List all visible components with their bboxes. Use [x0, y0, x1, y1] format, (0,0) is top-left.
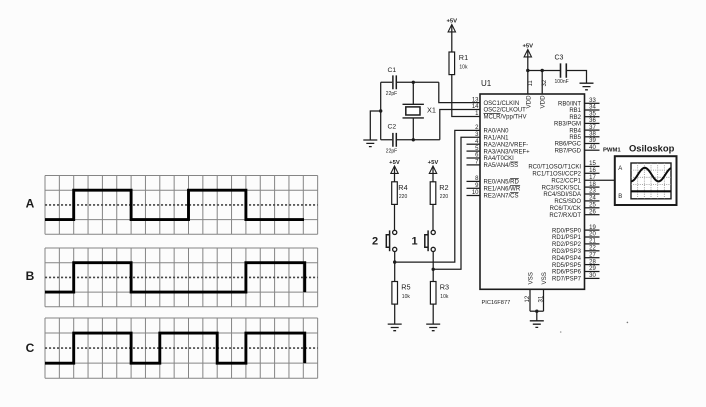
pin 12 VSS — [525, 272, 535, 311]
svg-text:PIC16F877: PIC16F877 — [482, 300, 511, 306]
svg-text:25: 25 — [589, 203, 596, 209]
svg-text:RB4: RB4 — [569, 128, 581, 134]
pin 6 RA4/T0CKI — [467, 153, 515, 163]
pin 36 RB3/PGM — [554, 118, 600, 128]
svg-text:2: 2 — [372, 236, 378, 248]
svg-text:RE0/AN5/RD: RE0/AN5/RD — [484, 180, 520, 186]
resistor R3 10k — [430, 282, 449, 305]
pin 33 RB0/INT — [558, 98, 600, 108]
wire R1 to MCLR pin 1 — [452, 75, 480, 117]
svg-text:1: 1 — [411, 236, 417, 248]
svg-text:12: 12 — [525, 295, 531, 302]
svg-text:38: 38 — [589, 132, 596, 138]
waveform grid B — [45, 248, 318, 307]
svg-text:23: 23 — [589, 189, 596, 195]
svg-text:18: 18 — [589, 182, 596, 188]
junction VSS — [535, 310, 538, 313]
svg-text:R3: R3 — [440, 283, 449, 292]
wire button 1 to node — [432, 251, 434, 269]
ground (R5) — [388, 324, 402, 331]
speck — [560, 331, 562, 333]
pin 34 RB1 — [569, 105, 599, 115]
pin 20 RD1/PSP1 — [552, 232, 600, 242]
svg-text:VDD: VDD — [525, 95, 532, 109]
svg-text:36: 36 — [589, 118, 596, 124]
pin 17 RC2/CCP1 — [551, 175, 596, 185]
wire to crystal ground — [370, 111, 380, 140]
svg-text:PWM1: PWM1 — [603, 148, 621, 154]
svg-text:29: 29 — [589, 266, 596, 272]
junction C1/X1 — [412, 81, 415, 84]
svg-text:VDD: VDD — [540, 95, 547, 109]
capacitor C2 22pF — [386, 124, 397, 155]
pin 28 RD5/PSP5 — [552, 259, 600, 269]
pin 24 RC5/SDO — [554, 196, 599, 206]
svg-text:27: 27 — [589, 252, 596, 258]
svg-text:RA0/AN0: RA0/AN0 — [484, 129, 510, 135]
svg-text:RC3/SCK/SCL: RC3/SCK/SCL — [542, 185, 582, 191]
pin 2 RA0/AN0 — [475, 125, 509, 135]
wire node to R3 — [432, 269, 434, 281]
capacitor C1 22pF — [386, 67, 397, 97]
svg-text:RA3/AN3/VREF+: RA3/AN3/VREF+ — [484, 149, 531, 155]
svg-text:RC4/SDI/SDA: RC4/SDI/SDA — [543, 192, 581, 198]
wire RC2/CCP1 to oscilloscope (net PWM1) — [585, 179, 615, 181]
svg-text:16: 16 — [589, 168, 596, 174]
svg-text:RD1/PSP1: RD1/PSP1 — [552, 235, 582, 241]
wire R5 to ground — [394, 304, 396, 324]
waveform grid A — [45, 176, 318, 235]
pin 13 OSC1/CLKIN — [472, 97, 519, 107]
junction pin11 — [526, 69, 529, 72]
svg-text:34: 34 — [589, 105, 596, 111]
svg-text:30: 30 — [589, 273, 596, 279]
svg-text:R5: R5 — [401, 283, 410, 292]
svg-text:24: 24 — [589, 196, 596, 202]
svg-text:RA2/AN2/VREF-: RA2/AN2/VREF- — [484, 142, 529, 148]
svg-text:22pF: 22pF — [386, 148, 397, 154]
resistor R1 10k — [449, 52, 468, 75]
button 2 — [372, 230, 397, 251]
pin 25 RC6/TX/CK — [550, 203, 600, 213]
svg-text:21: 21 — [589, 239, 596, 245]
pin 38 RB5 — [569, 132, 599, 142]
resistor R5 10k — [392, 282, 411, 305]
junction pin32 — [541, 69, 544, 72]
pin 29 RD6/PSP6 — [552, 266, 600, 276]
svg-text:OSC2/CLKOUT: OSC2/CLKOUT — [484, 108, 527, 114]
ground (R3) — [426, 324, 440, 331]
svg-text:C2: C2 — [388, 124, 397, 131]
pin 7 RA5/AN4/SS — [467, 160, 519, 170]
svg-text:RD7/PSP7: RD7/PSP7 — [552, 277, 582, 283]
pin 16 RC1/T1OSI/CCP2 — [532, 168, 599, 178]
svg-text:RB1: RB1 — [569, 108, 581, 114]
svg-text:11: 11 — [528, 80, 534, 87]
svg-text:40: 40 — [589, 145, 596, 151]
svg-text:RA4/T0CKI: RA4/T0CKI — [484, 156, 515, 162]
svg-text:RB5: RB5 — [569, 135, 581, 141]
pin 3 RA1/AN1 — [475, 132, 509, 142]
svg-text:26: 26 — [589, 209, 596, 215]
svg-text:35: 35 — [589, 111, 596, 117]
svg-text:RA5/AN4/SS: RA5/AN4/SS — [484, 163, 519, 169]
wire +5V to VDD rail — [527, 57, 529, 71]
pin 9 RE1/AN6/WR — [467, 183, 521, 193]
svg-text:220: 220 — [399, 194, 408, 200]
svg-text:RD2/PSP2: RD2/PSP2 — [552, 242, 582, 248]
power +5V (R2) — [428, 160, 439, 173]
pin 18 RC3/SCK/SCL — [542, 182, 600, 192]
svg-text:Osiloskop: Osiloskop — [629, 143, 675, 154]
waveform trace C — [45, 333, 305, 363]
wire +5V to R2 — [432, 173, 434, 181]
waveform grid C — [45, 318, 318, 378]
svg-text:OSC1/CLKIN: OSC1/CLKIN — [484, 101, 520, 107]
pin 1 MCLR/Vpp/THV — [475, 111, 526, 121]
pin 15 RC0/T1OSO/T1CKI — [528, 161, 599, 171]
svg-text:10k: 10k — [440, 294, 449, 300]
svg-text:10k: 10k — [402, 294, 411, 300]
svg-text:VSS: VSS — [528, 272, 535, 284]
ground (crystal) — [363, 140, 377, 147]
svg-text:C: C — [26, 341, 35, 355]
svg-text:RD4/PSP4: RD4/PSP4 — [552, 256, 582, 262]
svg-text:RB2: RB2 — [569, 115, 581, 121]
pin 40 RB7/PGD — [555, 145, 600, 155]
svg-text:37: 37 — [589, 125, 596, 131]
svg-text:B: B — [26, 269, 35, 283]
pin 19 RD0/PSP0 — [552, 225, 600, 235]
pin 4 RA2/AN2/VREF- — [467, 139, 529, 149]
svg-text:RD6/PSP6: RD6/PSP6 — [552, 270, 582, 276]
pin 30 RD7/PSP7 — [552, 273, 600, 283]
svg-text:RC1/T1OSI/CCP2: RC1/T1OSI/CCP2 — [532, 172, 581, 178]
junction C2/X1 — [412, 138, 415, 141]
junction gnd tap — [379, 109, 382, 112]
waveform trace A — [45, 190, 304, 219]
svg-text:R1: R1 — [459, 53, 468, 62]
wire button 2 to node — [394, 251, 396, 262]
wire C2 net (OSC2) — [381, 110, 480, 140]
svg-text:A: A — [618, 166, 622, 172]
svg-text:RE1/AN6/WR: RE1/AN6/WR — [484, 187, 521, 193]
svg-text:A: A — [26, 196, 35, 210]
button 1 — [411, 230, 435, 251]
power +5V (R4) — [389, 160, 400, 173]
wire node to RA1 (pin 3) — [433, 137, 480, 269]
wire R4 to button 2 — [394, 204, 396, 230]
pin 8 RE0/AN5/RD — [467, 176, 520, 186]
svg-text:RE2/AN7/CS: RE2/AN7/CS — [484, 194, 519, 200]
pin 31 VSS — [539, 272, 549, 311]
pin 11 VDD — [525, 71, 534, 109]
ground (C3) — [580, 83, 594, 90]
pin 37 RB4 — [569, 125, 599, 135]
pin 22 RD3/PSP3 — [552, 246, 600, 256]
svg-text:100nF: 100nF — [555, 79, 569, 85]
svg-text:MCLR/Vpp/THV: MCLR/Vpp/THV — [484, 115, 527, 121]
capacitor C3 100nF — [555, 55, 569, 85]
pin 27 RD4/PSP4 — [552, 252, 600, 262]
pin 35 RB2 — [569, 111, 599, 121]
svg-text:U1: U1 — [481, 79, 492, 88]
svg-text:31: 31 — [539, 295, 545, 302]
svg-text:RC7/RX/DT: RC7/RX/DT — [549, 213, 581, 219]
junction button 2 node — [393, 260, 396, 263]
pin 23 RC4/SDI/SDA — [543, 189, 599, 199]
crystal X1 — [403, 82, 436, 140]
svg-text:RC2/CCP1: RC2/CCP1 — [551, 178, 581, 184]
svg-text:19: 19 — [589, 225, 596, 231]
svg-text:VSS: VSS — [541, 272, 548, 284]
pin 5 RA3/AN3/VREF+ — [467, 146, 531, 156]
wire +5V to R1 — [451, 32, 453, 52]
svg-text:10k: 10k — [459, 64, 468, 70]
wire left vertical (C1-C2) — [380, 82, 382, 140]
resistor R4 220 — [392, 182, 408, 205]
wire VDD rail to C3 — [528, 71, 587, 83]
wire R3 to ground — [432, 304, 434, 324]
waveform trace B — [45, 263, 305, 292]
svg-text:20: 20 — [589, 232, 596, 238]
svg-text:RB6/PGC: RB6/PGC — [555, 142, 582, 148]
svg-text:RC5/SDO: RC5/SDO — [554, 199, 581, 205]
pin 21 RD2/PSP2 — [552, 239, 600, 249]
svg-text:22pF: 22pF — [386, 91, 397, 97]
svg-text:RB3/PGM: RB3/PGM — [554, 122, 581, 128]
ground below U1 — [530, 321, 544, 328]
svg-text:32: 32 — [542, 79, 548, 86]
svg-text:28: 28 — [589, 259, 596, 265]
svg-text:RC0/T1OSO/T1CKI: RC0/T1OSO/T1CKI — [528, 165, 581, 171]
svg-text:33: 33 — [589, 98, 596, 104]
svg-text:C3: C3 — [555, 55, 564, 62]
IC U1 PIC16F877 microcontroller — [480, 94, 585, 289]
svg-text:RD0/PSP0: RD0/PSP0 — [552, 228, 582, 234]
wire node to R5 — [394, 262, 396, 281]
svg-text:R4: R4 — [398, 183, 407, 192]
svg-text:RC6/TX/CK: RC6/TX/CK — [550, 206, 581, 212]
svg-text:220: 220 — [440, 194, 449, 200]
pin 10 RE2/AN7/CS — [467, 190, 519, 200]
wire +5V to R4 — [394, 173, 396, 181]
svg-text:22: 22 — [589, 246, 596, 252]
svg-text:X1: X1 — [427, 106, 436, 115]
svg-text:39: 39 — [589, 138, 596, 144]
svg-text:15: 15 — [589, 161, 596, 167]
svg-text:C1: C1 — [388, 67, 397, 74]
wire VSS pins join — [530, 310, 544, 312]
svg-text:RA1/AN1: RA1/AN1 — [484, 136, 510, 142]
wire to ground — [536, 311, 538, 320]
svg-text:10: 10 — [472, 190, 479, 196]
svg-text:RD5/PSP5: RD5/PSP5 — [552, 263, 582, 269]
junction button 1 node — [432, 268, 435, 271]
resistor R2 220 — [430, 182, 448, 205]
pin 14 OSC2/CLKOUT — [472, 104, 526, 114]
svg-text:R2: R2 — [439, 183, 448, 192]
wire C1 net (OSC1) — [381, 82, 480, 102]
svg-text:B: B — [618, 194, 622, 200]
pin 39 RB6/PGC — [555, 138, 600, 148]
svg-text:RD3/PSP3: RD3/PSP3 — [552, 249, 582, 255]
pin 26 RC7/RX/DT — [549, 209, 599, 219]
svg-text:RB0/INT: RB0/INT — [558, 102, 581, 108]
wire node to RA0 (pin 2) — [395, 130, 480, 262]
power +5V (VDD) — [522, 44, 533, 57]
oscilloscope Osiloskop — [615, 143, 677, 206]
svg-text:RB7/PGD: RB7/PGD — [555, 148, 582, 154]
power +5V (R1) — [446, 19, 457, 32]
speck — [627, 322, 629, 324]
pin 32 VDD — [540, 71, 549, 109]
wire R2 to button 1 — [432, 204, 434, 230]
